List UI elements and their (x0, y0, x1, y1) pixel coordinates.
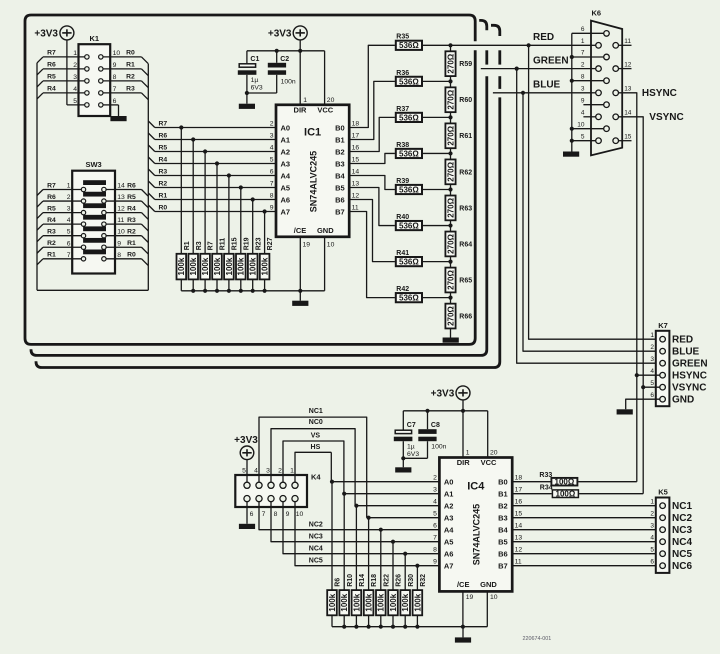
capacitor C8 100n (401, 411, 446, 461)
svg-text:NC5: NC5 (672, 549, 692, 560)
svg-text:5: 5 (650, 380, 654, 387)
svg-text:2: 2 (650, 510, 654, 517)
K5 pin numbers and labels (650, 498, 692, 572)
wire RED down to K7 pin1 (529, 45, 656, 339)
svg-text:A7: A7 (444, 562, 454, 571)
wire R33 to HSYNC (578, 481, 637, 483)
resistor R38 536R (396, 142, 422, 159)
svg-text:RED: RED (672, 335, 693, 346)
wire NC1 (K4 pin4 to IC4 A3) (259, 408, 367, 518)
svg-text:K4: K4 (311, 473, 321, 482)
svg-text:100k: 100k (389, 593, 398, 611)
resistor R63 270R (445, 196, 472, 221)
svg-text:R66: R66 (459, 313, 472, 320)
svg-text:536Ω: 536Ω (399, 221, 419, 230)
svg-text:13: 13 (352, 181, 360, 188)
svg-text:3: 3 (67, 206, 71, 213)
svg-text:R60: R60 (459, 97, 472, 104)
wire HSYNC from K6 pin13 (619, 88, 677, 375)
svg-text:GND: GND (317, 226, 334, 235)
wires IC4 B2-B7 to K5 (512, 506, 656, 566)
resistor R10 100k (339, 574, 353, 615)
wire GREEN down to K7 pin3 (517, 69, 656, 364)
cable bundle frame 1 (solid outer) (25, 15, 475, 344)
cable bundle frame 3 (dashed) (36, 25, 500, 367)
270R ladder chain wires (450, 45, 452, 337)
svg-text:13: 13 (624, 86, 632, 93)
wire VS (K4 pin2 to IC4 A1) (283, 433, 344, 494)
svg-text:R14: R14 (359, 574, 366, 587)
svg-text:2: 2 (73, 62, 77, 69)
svg-text:R1: R1 (127, 240, 136, 247)
wires IC1 B4-B7 to R39-R42 (349, 176, 395, 298)
svg-text:10: 10 (296, 511, 304, 518)
svg-text:R4: R4 (47, 217, 56, 224)
svg-text:R6: R6 (127, 182, 136, 189)
svg-text:GREEN: GREEN (672, 359, 708, 370)
svg-text:9: 9 (270, 205, 274, 212)
svg-text:SN74ALVC245: SN74ALVC245 (472, 504, 482, 565)
svg-text:100k: 100k (328, 593, 337, 611)
svg-text:18: 18 (352, 121, 360, 128)
svg-text:GND: GND (672, 395, 694, 406)
svg-text:100Ω: 100Ω (556, 490, 576, 499)
svg-text:VSYNC: VSYNC (649, 112, 683, 123)
svg-text:B3: B3 (335, 160, 345, 169)
svg-text:R3: R3 (196, 241, 203, 250)
svg-text:13: 13 (117, 194, 125, 201)
resistor R7 100k (200, 241, 214, 279)
svg-text:270Ω: 270Ω (446, 161, 455, 181)
svg-text:100n: 100n (431, 443, 446, 450)
resistor R64 270R (445, 232, 472, 257)
svg-text:R30: R30 (408, 574, 415, 587)
svg-text:NC5: NC5 (309, 557, 323, 564)
svg-text:R27: R27 (267, 237, 274, 250)
SW3 pin numbers (67, 183, 125, 259)
svg-text:A0: A0 (281, 124, 291, 133)
svg-text:4: 4 (581, 110, 585, 117)
svg-text:GND: GND (480, 580, 497, 589)
IC IC4 SN74ALVC245 (439, 458, 512, 592)
svg-text:11: 11 (624, 38, 631, 45)
svg-text:100k: 100k (261, 257, 270, 275)
svg-text:R34: R34 (540, 484, 553, 491)
svg-text:6: 6 (581, 26, 585, 33)
svg-text:14: 14 (352, 169, 360, 176)
svg-text:5: 5 (581, 133, 585, 140)
svg-text:9: 9 (113, 62, 117, 69)
wires A0-A3 rows into IC4 (332, 482, 439, 518)
svg-text:14: 14 (515, 523, 523, 530)
svg-text:100k: 100k (401, 593, 410, 611)
svg-text:R26: R26 (396, 574, 403, 587)
svg-text:+3V3: +3V3 (34, 28, 58, 39)
svg-text:NC0: NC0 (309, 419, 323, 426)
svg-text:16: 16 (515, 499, 523, 506)
wire VSYNC from K6 pin14 (619, 112, 684, 387)
svg-text:2: 2 (270, 121, 274, 128)
svg-text:NC2: NC2 (309, 521, 323, 528)
+3V3 supply (IC1) (268, 26, 307, 40)
resistor R66 270R (445, 304, 472, 329)
svg-text:R4: R4 (47, 86, 56, 93)
IC1 /CE and GND wires to ground (298, 237, 324, 293)
svg-text:IC1: IC1 (304, 127, 321, 139)
ground (IC1) (292, 291, 308, 306)
supply rail +3V3 to IC1 (247, 40, 325, 105)
svg-text:R11: R11 (220, 238, 227, 251)
resistor R14 100k (352, 574, 366, 615)
svg-text:BLUE: BLUE (672, 347, 700, 358)
svg-text:R0: R0 (127, 252, 136, 259)
svg-text:R3: R3 (126, 86, 135, 93)
svg-text:4: 4 (650, 368, 654, 375)
svg-text:R3: R3 (47, 229, 56, 236)
wire BLUE down to K7 pin2 (523, 93, 656, 351)
svg-text:1: 1 (73, 50, 77, 57)
svg-text:19: 19 (466, 594, 474, 601)
connector K7 (656, 321, 670, 406)
svg-text:17: 17 (515, 487, 523, 494)
svg-text:+3V3: +3V3 (431, 388, 455, 399)
svg-text:536Ω: 536Ω (399, 185, 419, 194)
svg-text:C1: C1 (250, 56, 259, 63)
svg-text:18: 18 (515, 475, 523, 482)
ground (C1/C2) (239, 93, 255, 109)
capacitor C7 1u 6V3 (394, 411, 420, 459)
svg-text:9: 9 (581, 97, 585, 104)
ground (K1 pin6) (110, 116, 126, 121)
svg-text:536Ω: 536Ω (399, 294, 419, 303)
wires 536R outputs to 270R chain (423, 43, 453, 300)
svg-text:K1: K1 (90, 34, 100, 43)
svg-text:R7: R7 (47, 50, 56, 57)
K4 pin numbers (242, 468, 303, 519)
svg-text:SN74ALVC245: SN74ALVC245 (309, 151, 319, 212)
svg-text:R6: R6 (159, 132, 168, 139)
svg-text:VCC: VCC (481, 458, 497, 467)
svg-text:B1: B1 (498, 490, 508, 499)
svg-text:4: 4 (433, 499, 437, 506)
svg-text:100k: 100k (189, 257, 198, 275)
svg-text:5: 5 (433, 511, 437, 518)
svg-text:/CE: /CE (294, 226, 307, 235)
svg-text:R0: R0 (126, 50, 135, 57)
svg-text:270Ω: 270Ω (446, 233, 455, 253)
ground (K7) (617, 409, 633, 414)
ground (270R chain) (443, 338, 459, 343)
svg-text:NC3: NC3 (672, 525, 692, 536)
resistor R1 100k (177, 241, 191, 279)
svg-text:R32: R32 (420, 574, 427, 587)
svg-text:6: 6 (113, 98, 117, 105)
svg-text:270Ω: 270Ω (446, 197, 455, 217)
svg-text:A7: A7 (281, 208, 291, 217)
svg-text:R2: R2 (126, 74, 135, 81)
svg-text:B1: B1 (335, 136, 345, 145)
svg-text:HS: HS (311, 444, 321, 451)
svg-text:R22: R22 (383, 574, 390, 587)
wire NC0 (K4 pin3 to IC4 A2) (271, 419, 355, 506)
wire VSYNC K7 to R34 (642, 387, 644, 494)
svg-text:11: 11 (515, 559, 522, 566)
wire GREEN (481, 56, 596, 71)
resistor R27 100k (260, 237, 274, 279)
connector K1 (79, 34, 111, 116)
svg-text:100k: 100k (352, 593, 361, 611)
SW3 left wires R7-R1 to bus (37, 182, 81, 264)
svg-text:A3: A3 (444, 514, 454, 523)
svg-text:R35: R35 (396, 34, 409, 41)
svg-text:20: 20 (327, 97, 335, 104)
K6 right pin wires and numbers (619, 38, 632, 141)
svg-text:A2: A2 (444, 502, 454, 511)
svg-text:R5: R5 (127, 194, 136, 201)
IC4 supply rail (403, 400, 487, 458)
svg-text:SW3: SW3 (85, 160, 101, 169)
wire +3V3 to K4 pin5 (246, 460, 248, 483)
resistor R32 100k (413, 574, 427, 615)
svg-text:9: 9 (433, 559, 437, 566)
K7 pin4 HSYNC junction (635, 373, 660, 377)
svg-text:R62: R62 (459, 169, 472, 176)
junction dots on IC1 input rows (179, 125, 267, 213)
svg-text:5: 5 (73, 98, 77, 105)
switch SW3 (72, 160, 115, 273)
svg-text:270Ω: 270Ω (446, 306, 455, 326)
svg-text:A5: A5 (281, 184, 291, 193)
IC1 pin numbers (270, 97, 360, 249)
ground (IC4) (455, 627, 471, 643)
resistor R62 270R (445, 159, 472, 184)
svg-text:270Ω: 270Ω (446, 53, 455, 73)
resistor R41 536R (396, 250, 422, 267)
svg-text:8: 8 (274, 511, 278, 518)
resistor R15 100k (224, 237, 238, 279)
svg-text:R5: R5 (47, 205, 56, 212)
svg-text:4: 4 (270, 145, 274, 152)
svg-text:8: 8 (113, 74, 117, 81)
svg-text:15: 15 (624, 133, 632, 140)
svg-text:5: 5 (270, 157, 274, 164)
svg-text:A0: A0 (444, 478, 454, 487)
pulldown bank 2 wires (332, 482, 417, 590)
svg-text:1: 1 (466, 450, 470, 457)
resistor R36 536R (396, 70, 422, 87)
svg-text:B6: B6 (335, 196, 345, 205)
svg-text:R40: R40 (396, 214, 409, 221)
svg-text:6: 6 (433, 523, 437, 530)
svg-text:3: 3 (433, 487, 437, 494)
K1 pin numbers (73, 50, 120, 105)
svg-text:1: 1 (290, 468, 294, 475)
resistor R33 100R (539, 472, 577, 487)
svg-text:270Ω: 270Ω (446, 89, 455, 109)
+3V3 supply (K1) (34, 26, 74, 40)
svg-text:B7: B7 (498, 562, 508, 571)
svg-text:6V3: 6V3 (407, 451, 419, 458)
svg-text:2: 2 (581, 61, 585, 68)
svg-text:5: 5 (242, 468, 246, 475)
svg-text:VS: VS (311, 433, 321, 440)
pulldown resistor bank R1,R3,R7,R11,R15,R19,R23,R27 wires (181, 128, 264, 255)
svg-text:2: 2 (278, 468, 282, 475)
connector K4 (235, 473, 321, 508)
svg-text:17: 17 (352, 133, 360, 140)
IC4 pin numbers (433, 450, 522, 602)
svg-text:R61: R61 (459, 133, 472, 140)
ground (C7/C8) (395, 458, 411, 472)
svg-text:536Ω: 536Ω (399, 149, 419, 158)
bus rectangle (left/right bus wires) (37, 63, 148, 290)
svg-text:NC6: NC6 (672, 561, 692, 572)
svg-text:R3: R3 (159, 168, 168, 175)
svg-text:R42: R42 (396, 286, 409, 293)
svg-text:C8: C8 (431, 422, 440, 429)
svg-text:R39: R39 (396, 178, 409, 185)
svg-text:B5: B5 (335, 184, 345, 193)
svg-text:100k: 100k (413, 593, 422, 611)
svg-text:R59: R59 (459, 61, 472, 68)
svg-text:R10: R10 (347, 574, 354, 587)
svg-text:R7: R7 (208, 241, 215, 250)
svg-text:1µ: 1µ (251, 77, 259, 84)
svg-text:R6: R6 (47, 194, 56, 201)
svg-text:100Ω: 100Ω (555, 478, 575, 487)
svg-text:RED: RED (533, 32, 554, 43)
resistor R65 270R (445, 268, 472, 293)
svg-text:R7: R7 (159, 120, 168, 127)
svg-text:IC4: IC4 (467, 481, 485, 493)
svg-text:HSYNC: HSYNC (672, 371, 707, 382)
junction dots on IC4 input rows (330, 480, 420, 568)
svg-text:270Ω: 270Ω (446, 125, 455, 145)
svg-text:7: 7 (113, 86, 117, 93)
svg-text:6: 6 (67, 240, 71, 247)
svg-text:R5: R5 (47, 74, 56, 81)
svg-text:12: 12 (117, 206, 125, 213)
svg-text:R41: R41 (396, 250, 409, 257)
svg-text:3: 3 (650, 522, 654, 529)
svg-text:12: 12 (352, 193, 360, 200)
svg-text:8: 8 (581, 73, 585, 80)
SW3 right wires R6-R0 to bus (106, 182, 148, 265)
resistor R19 100k (236, 237, 250, 279)
svg-text:10: 10 (490, 594, 498, 601)
svg-text:R1: R1 (47, 252, 56, 259)
svg-text:C2: C2 (280, 56, 289, 63)
svg-text:13: 13 (515, 535, 523, 542)
svg-text:R2: R2 (127, 229, 136, 236)
K7 pin6 GND wire (626, 399, 660, 409)
svg-text:R19: R19 (243, 237, 250, 250)
svg-text:220674-001: 220674-001 (523, 636, 552, 642)
wires IC1 B0-B3 to R35-R38 (349, 45, 395, 163)
svg-text:100k: 100k (201, 257, 210, 275)
wire K1 pin5 to +3V3 (67, 40, 85, 105)
svg-text:7: 7 (581, 50, 585, 57)
svg-text:B4: B4 (498, 526, 508, 535)
svg-text:BLUE: BLUE (533, 79, 561, 90)
svg-text:NC3: NC3 (309, 533, 323, 540)
svg-text:R4: R4 (127, 205, 136, 212)
svg-text:A4: A4 (444, 526, 454, 535)
wire NC5 (K4 pin10 to IC4 A7) (295, 502, 439, 566)
connector K5 (656, 488, 670, 573)
svg-text:15: 15 (352, 157, 360, 164)
svg-text:6: 6 (270, 169, 274, 176)
wire HS (K4 pin1 to IC4 A0) (295, 444, 331, 482)
svg-text:1: 1 (581, 38, 585, 45)
svg-text:R65: R65 (459, 277, 472, 284)
wire RED (451, 32, 596, 48)
svg-text:9: 9 (286, 511, 290, 518)
svg-text:2: 2 (650, 344, 654, 351)
svg-text:+3V3: +3V3 (268, 28, 292, 39)
capacitor C2 100n (245, 51, 296, 95)
svg-text:4: 4 (650, 534, 654, 541)
svg-text:NC1: NC1 (309, 408, 323, 415)
svg-text:16: 16 (352, 145, 360, 152)
svg-text:VCC: VCC (317, 105, 333, 114)
resistor R3 100k (188, 241, 202, 279)
svg-text:5: 5 (67, 229, 71, 236)
svg-text:NC4: NC4 (672, 537, 692, 548)
svg-text:4: 4 (73, 86, 77, 93)
svg-text:536Ω: 536Ω (399, 77, 419, 86)
svg-text:270Ω: 270Ω (446, 270, 455, 290)
svg-text:12: 12 (624, 61, 632, 68)
svg-text:3: 3 (650, 356, 654, 363)
svg-text:11: 11 (117, 217, 124, 224)
svg-text:4: 4 (254, 468, 258, 475)
svg-text:A6: A6 (281, 196, 291, 205)
wire R34 to VSYNC (579, 493, 643, 495)
svg-text:R1: R1 (126, 62, 135, 69)
resistor R59 270R (445, 51, 472, 76)
svg-text:/CE: /CE (457, 580, 470, 589)
svg-text:R1: R1 (159, 192, 168, 199)
svg-text:R5: R5 (159, 144, 168, 151)
resistor R61 270R (445, 123, 472, 148)
resistor R26 100k (388, 574, 402, 615)
svg-text:536Ω: 536Ω (399, 113, 419, 122)
svg-text:5: 5 (650, 546, 654, 553)
svg-text:12: 12 (515, 547, 523, 554)
svg-text:4: 4 (67, 217, 71, 224)
svg-text:536Ω: 536Ω (399, 41, 419, 50)
svg-text:100k: 100k (365, 593, 374, 611)
svg-text:R36: R36 (396, 70, 409, 77)
bank2 bottom rail (332, 615, 463, 629)
svg-text:R7: R7 (47, 182, 56, 189)
svg-text:GREEN: GREEN (533, 56, 569, 67)
svg-text:DIR: DIR (457, 458, 471, 467)
svg-text:A2: A2 (281, 148, 291, 157)
svg-text:100k: 100k (225, 257, 234, 275)
svg-text:R0: R0 (159, 204, 168, 211)
svg-text:9: 9 (117, 240, 121, 247)
svg-text:7: 7 (67, 252, 71, 259)
IC IC1 SN74ALVC245 (276, 105, 349, 237)
svg-text:20: 20 (490, 450, 498, 457)
K6 ground bus (570, 33, 604, 151)
svg-text:100k: 100k (177, 257, 186, 275)
svg-text:10: 10 (117, 229, 125, 236)
IC4 /CE and GND wires (461, 591, 488, 628)
svg-text:VSYNC: VSYNC (672, 383, 706, 394)
